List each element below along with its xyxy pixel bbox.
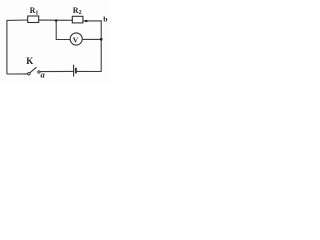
wire R1 to R2 [39,19,73,21]
resistor R2 [72,16,83,23]
node junction dot on b branch [100,38,103,41]
svg-text:K: K [26,56,33,66]
wire battery to bottom-right corner [77,70,102,72]
background [0,0,110,84]
switch contact a [38,71,40,73]
resistor R1 [28,16,39,23]
node junction dot left (voltmeter tap) [55,19,58,22]
svg-text:b: b [103,14,108,23]
switch K pivot contact [28,73,30,75]
switch K lever (open) [30,67,36,73]
svg-text:V: V [73,35,79,44]
battery long plate (+) [73,65,75,77]
wire R2 to top-right corner [83,20,102,22]
wire left vertical [6,20,8,74]
wire switch to battery [40,70,73,72]
voltmeter U (circle) [70,33,82,45]
wire right vertical (b branch) [100,20,102,71]
wire voltmeter right to b branch [82,38,101,40]
node dot right of R2 [85,20,88,22]
wire bottom-left [7,73,28,75]
wire top-left: left corner to R1 [7,19,28,21]
wire voltmeter left drop [56,21,70,40]
battery short plate (-) [75,68,77,74]
